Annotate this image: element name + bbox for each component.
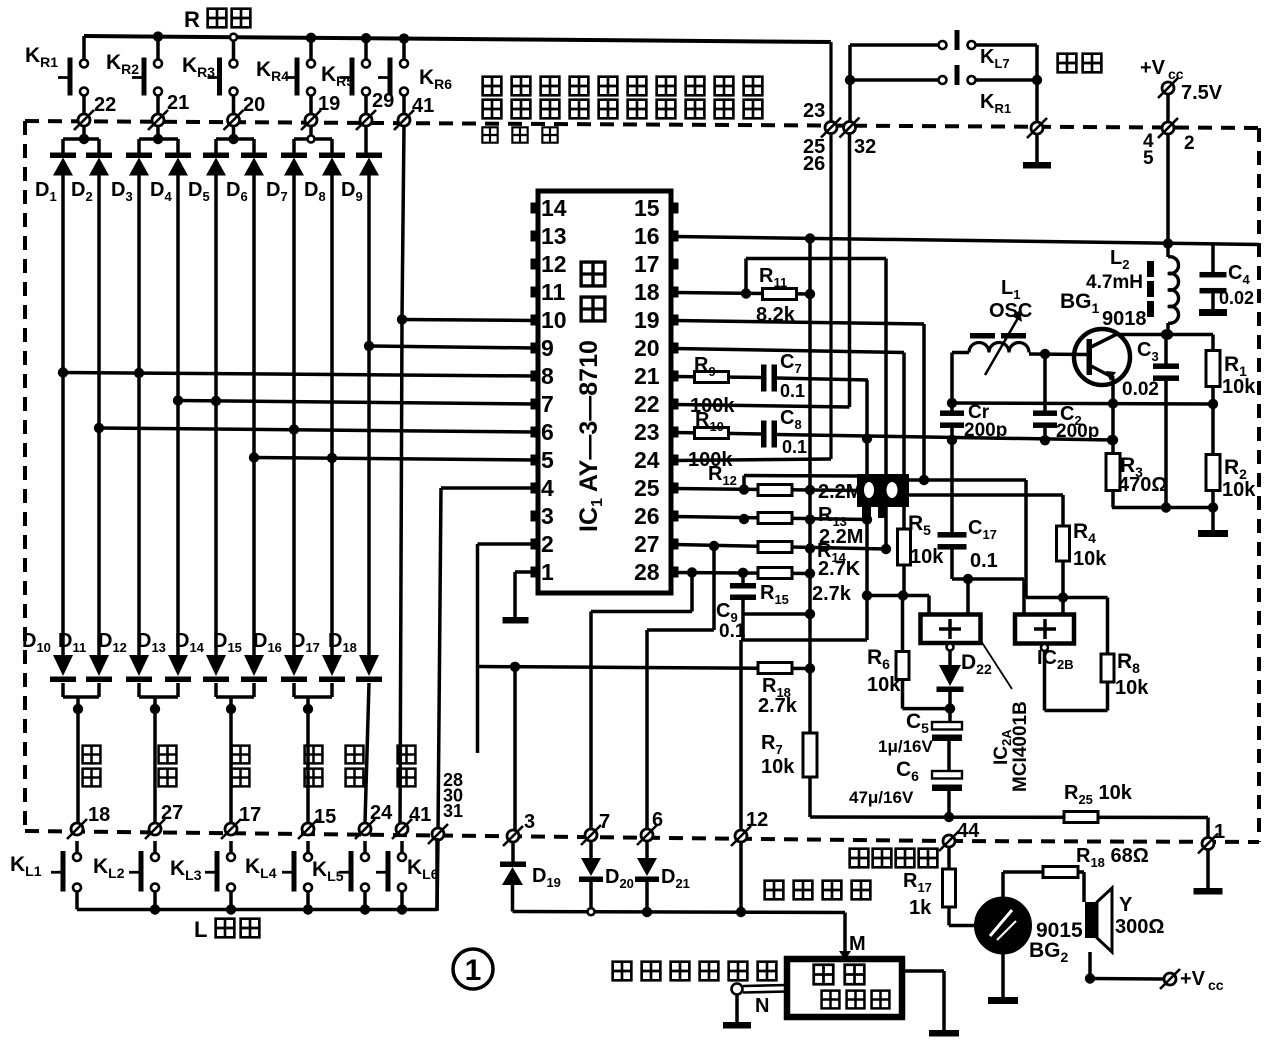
svg-text:15: 15 <box>634 195 660 221</box>
svg-text:2: 2 <box>541 531 554 557</box>
svg-text:26: 26 <box>803 153 825 175</box>
svg-text:5: 5 <box>1143 148 1154 169</box>
svg-text:9018: 9018 <box>1102 308 1147 330</box>
svg-text:14: 14 <box>541 195 567 221</box>
svg-text:2.7k: 2.7k <box>758 695 798 717</box>
svg-text:7: 7 <box>541 391 554 417</box>
svg-text:16: 16 <box>634 223 660 249</box>
svg-text:41: 41 <box>412 95 434 117</box>
svg-text:0.02: 0.02 <box>1219 288 1254 308</box>
svg-text:4.7mH: 4.7mH <box>1086 272 1143 293</box>
svg-text:17: 17 <box>239 804 261 826</box>
svg-text:0.1: 0.1 <box>719 621 746 642</box>
svg-text:0.1: 0.1 <box>782 437 807 457</box>
svg-text:26: 26 <box>634 503 660 529</box>
svg-text:200p: 200p <box>1056 421 1099 442</box>
svg-text:21: 21 <box>167 92 189 114</box>
svg-text:cc: cc <box>1208 977 1224 993</box>
svg-text:23: 23 <box>634 419 660 445</box>
svg-text:19: 19 <box>634 307 660 333</box>
svg-text:22: 22 <box>94 94 116 116</box>
svg-text:12: 12 <box>541 251 567 277</box>
svg-text:22: 22 <box>634 391 660 417</box>
svg-text:+V: +V <box>1140 57 1166 79</box>
svg-text:10k: 10k <box>1222 479 1256 501</box>
svg-text:19: 19 <box>318 93 340 115</box>
svg-text:10k: 10k <box>1222 376 1256 398</box>
svg-text:300Ω: 300Ω <box>1115 916 1164 938</box>
svg-text:20: 20 <box>243 94 265 116</box>
svg-text:25: 25 <box>634 475 660 501</box>
svg-text:28: 28 <box>634 559 660 585</box>
svg-text:29: 29 <box>372 90 394 112</box>
svg-text:10k: 10k <box>867 674 901 696</box>
svg-text:R25 10k: R25 10k <box>1064 782 1133 807</box>
svg-text:44: 44 <box>957 820 980 842</box>
svg-text:10k: 10k <box>1073 548 1107 570</box>
svg-text:18: 18 <box>88 804 110 826</box>
svg-text:3: 3 <box>541 503 554 529</box>
svg-text:7.5V: 7.5V <box>1181 82 1223 104</box>
svg-text:2.7k: 2.7k <box>812 583 852 605</box>
svg-text:10: 10 <box>541 307 567 333</box>
svg-text:9: 9 <box>541 335 554 361</box>
svg-text:MCI4001B: MCI4001B <box>1010 701 1031 792</box>
svg-text:OSC: OSC <box>989 300 1032 322</box>
svg-text:+V: +V <box>1180 968 1206 990</box>
svg-text:10k: 10k <box>1115 677 1149 699</box>
svg-text:2: 2 <box>1184 133 1195 154</box>
svg-text:13: 13 <box>541 223 567 249</box>
svg-text:0.1: 0.1 <box>970 550 998 572</box>
svg-text:6: 6 <box>652 809 663 831</box>
svg-text:1: 1 <box>465 954 482 987</box>
svg-text:L: L <box>194 917 207 942</box>
svg-text:200p: 200p <box>964 420 1007 441</box>
svg-text:4: 4 <box>541 475 554 501</box>
svg-text:20: 20 <box>634 335 660 361</box>
svg-text:47μ/16V: 47μ/16V <box>849 788 914 807</box>
svg-text:17: 17 <box>634 251 660 277</box>
svg-text:470Ω: 470Ω <box>1118 474 1167 496</box>
svg-text:1k: 1k <box>909 897 932 919</box>
svg-text:10k: 10k <box>761 756 795 778</box>
svg-text:2.7K: 2.7K <box>818 558 861 580</box>
svg-text:R18 68Ω: R18 68Ω <box>1076 845 1149 870</box>
svg-text:0.1: 0.1 <box>780 381 805 401</box>
svg-text:2.2M: 2.2M <box>818 481 862 503</box>
svg-text:21: 21 <box>634 363 660 389</box>
svg-text:6: 6 <box>541 419 554 445</box>
svg-text:11: 11 <box>541 279 566 305</box>
svg-text:N: N <box>755 995 769 1017</box>
svg-text:32: 32 <box>854 136 876 158</box>
svg-text:7: 7 <box>599 811 610 833</box>
svg-text:0.02: 0.02 <box>1122 379 1159 400</box>
svg-text:1: 1 <box>1214 821 1225 843</box>
svg-text:15: 15 <box>314 806 336 828</box>
svg-text:23: 23 <box>803 100 825 122</box>
svg-text:27: 27 <box>634 531 660 557</box>
svg-text:41: 41 <box>409 804 431 826</box>
svg-text:R: R <box>184 7 200 32</box>
svg-text:3: 3 <box>524 811 535 833</box>
svg-text:8: 8 <box>541 363 554 389</box>
svg-text:24: 24 <box>634 447 660 473</box>
svg-text:27: 27 <box>161 802 183 824</box>
svg-text:M: M <box>849 933 866 955</box>
svg-text:1μ/16V: 1μ/16V <box>878 737 933 756</box>
svg-text:1: 1 <box>541 559 554 585</box>
svg-text:Y: Y <box>1119 894 1133 916</box>
svg-text:31: 31 <box>443 801 463 821</box>
svg-text:12: 12 <box>746 809 768 831</box>
svg-text:24: 24 <box>370 802 393 824</box>
svg-text:5: 5 <box>541 447 554 473</box>
svg-text:18: 18 <box>634 279 660 305</box>
